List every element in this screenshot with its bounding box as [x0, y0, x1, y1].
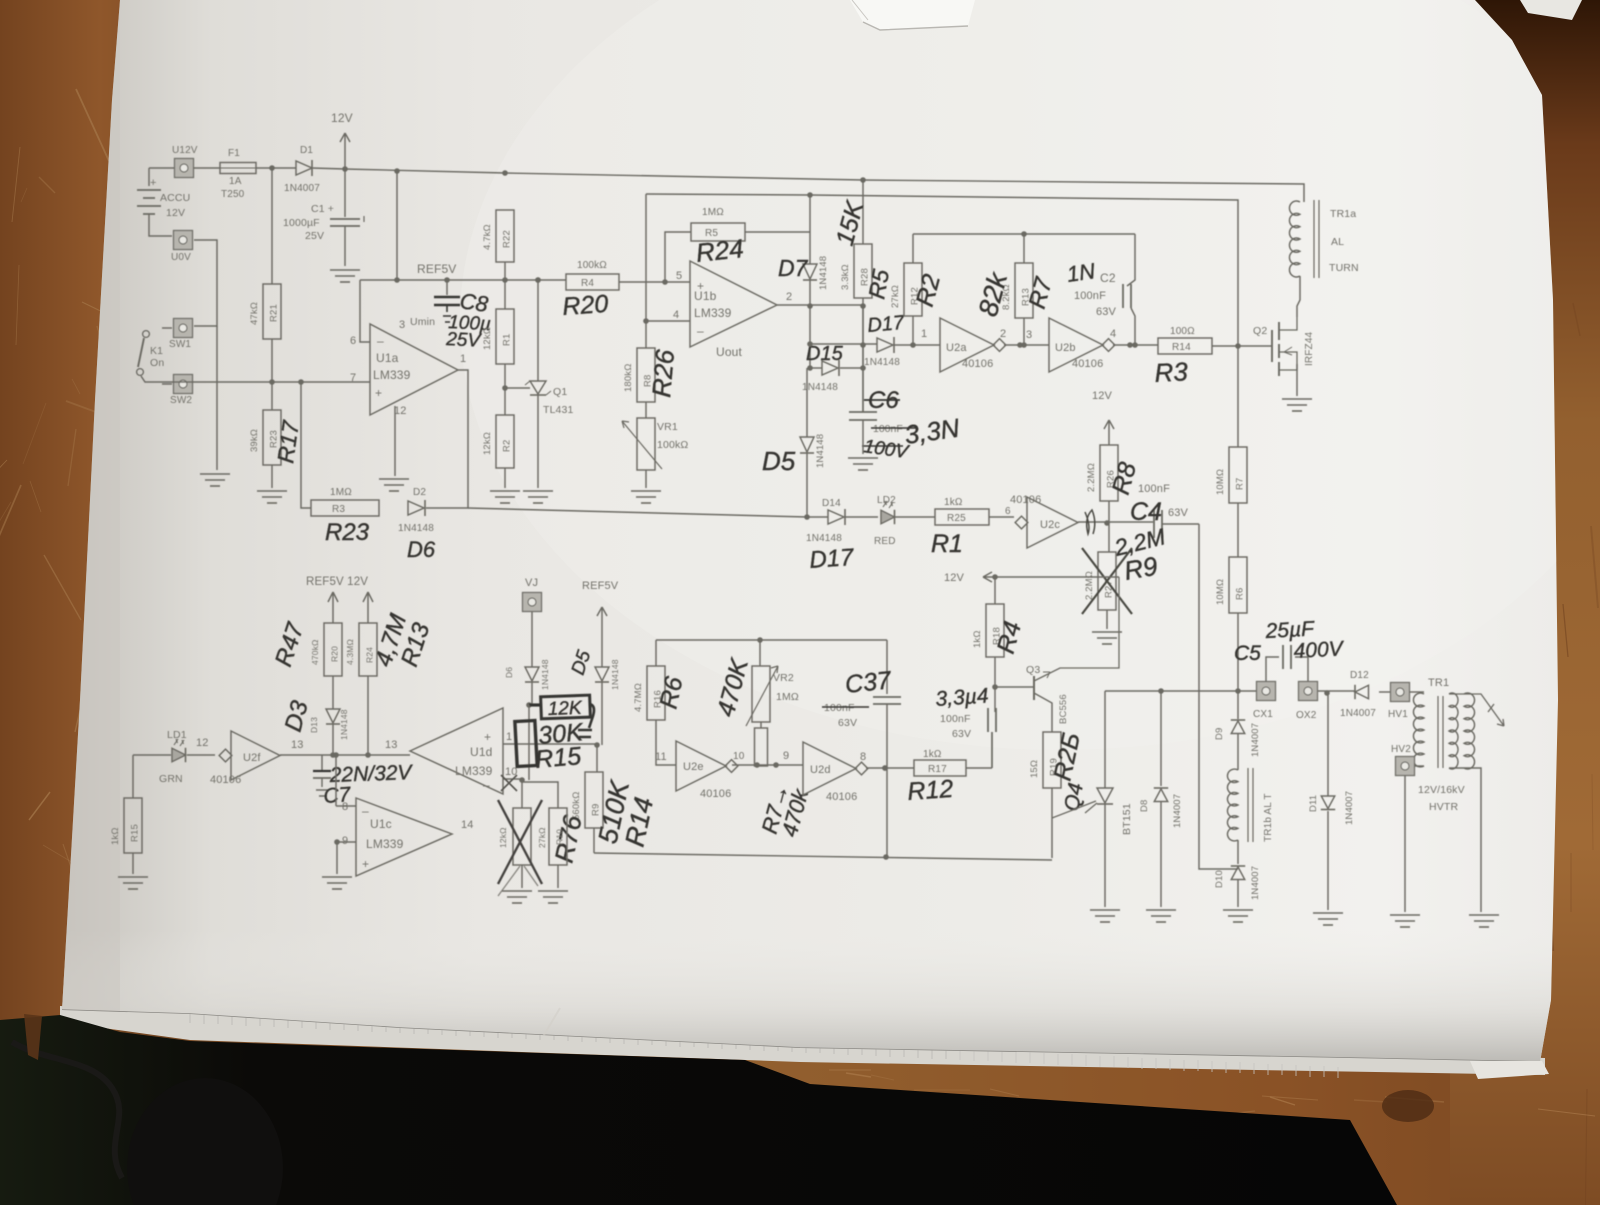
svg-text:R3: R3	[332, 504, 345, 515]
svg-text:C4: C4	[1130, 498, 1162, 526]
svg-text:27kΩ: 27kΩ	[537, 827, 547, 848]
svg-text:D17: D17	[867, 312, 906, 337]
svg-text:1A: 1A	[229, 176, 242, 187]
svg-text:R6: R6	[1235, 588, 1246, 600]
svg-text:1N4007: 1N4007	[1344, 791, 1355, 825]
svg-text:TL431: TL431	[543, 404, 574, 416]
svg-text:9: 9	[342, 835, 348, 847]
svg-text:REF5V: REF5V	[417, 262, 456, 276]
svg-text:REF5V: REF5V	[582, 580, 619, 592]
svg-text:8: 8	[860, 751, 866, 763]
svg-text:7: 7	[350, 372, 356, 384]
svg-text:R21: R21	[269, 304, 280, 322]
svg-text:U1d: U1d	[470, 745, 492, 759]
svg-text:12kΩ: 12kΩ	[498, 827, 508, 848]
svg-text:–: –	[483, 778, 490, 792]
svg-text:2.2MΩ: 2.2MΩ	[1084, 571, 1095, 600]
svg-text:HV2: HV2	[1391, 744, 1411, 755]
svg-text:4: 4	[1110, 328, 1116, 340]
svg-text:R14: R14	[1172, 342, 1191, 353]
svg-text:2.2MΩ: 2.2MΩ	[1086, 463, 1097, 492]
svg-text:LD2: LD2	[877, 495, 896, 506]
svg-text:D13: D13	[309, 717, 319, 733]
svg-text:4.7kΩ: 4.7kΩ	[482, 224, 493, 250]
svg-text:100nF: 100nF	[1074, 290, 1106, 302]
svg-text:R23: R23	[325, 519, 370, 546]
svg-text:12: 12	[196, 737, 209, 749]
svg-text:40106: 40106	[700, 788, 731, 800]
svg-text:R25: R25	[947, 513, 966, 524]
svg-text:SW1: SW1	[169, 339, 191, 350]
svg-text:12V: 12V	[166, 207, 185, 219]
svg-text:470kΩ: 470kΩ	[310, 639, 320, 665]
svg-text:R15: R15	[130, 824, 141, 842]
svg-text:1N4148: 1N4148	[610, 659, 620, 690]
svg-text:1N4007: 1N4007	[1340, 708, 1376, 719]
svg-text:U0V: U0V	[171, 252, 191, 263]
svg-text:R3: R3	[1154, 356, 1189, 388]
svg-text:10MΩ: 10MΩ	[1215, 469, 1226, 495]
svg-text:Uout: Uout	[716, 345, 742, 359]
svg-text:LM339: LM339	[455, 764, 493, 778]
svg-text:D8: D8	[1139, 800, 1150, 812]
svg-text:100nF: 100nF	[873, 423, 903, 435]
svg-text:LD1: LD1	[167, 729, 187, 741]
svg-text:HV1: HV1	[1388, 709, 1408, 720]
svg-text:100Ω: 100Ω	[1170, 326, 1195, 337]
svg-text:U1b: U1b	[694, 289, 717, 303]
svg-text:Q3: Q3	[1026, 664, 1040, 676]
svg-text:12V: 12V	[331, 111, 353, 125]
svg-text:10: 10	[733, 751, 745, 762]
svg-text:40106: 40106	[1072, 358, 1103, 370]
svg-text:2: 2	[1000, 328, 1006, 340]
svg-text:47kΩ: 47kΩ	[249, 302, 260, 325]
svg-text:13: 13	[385, 739, 398, 751]
svg-text:180kΩ: 180kΩ	[623, 364, 634, 392]
svg-text:D6: D6	[407, 537, 436, 562]
svg-text:63V: 63V	[1168, 507, 1189, 519]
svg-text:–: –	[362, 804, 369, 818]
svg-text:D9: D9	[1214, 728, 1225, 740]
svg-text:U2a: U2a	[946, 342, 967, 354]
svg-text:+: +	[375, 386, 382, 400]
svg-text:CX1: CX1	[1253, 709, 1273, 720]
svg-text:40106: 40106	[826, 791, 857, 803]
svg-text:+: +	[362, 857, 369, 871]
svg-text:GRN: GRN	[159, 773, 183, 785]
svg-text:–: –	[697, 324, 704, 338]
svg-text:3.3kΩ: 3.3kΩ	[840, 264, 851, 290]
svg-text:Q1: Q1	[553, 386, 567, 398]
svg-text:12K: 12K	[547, 698, 583, 720]
svg-text:BT151: BT151	[1121, 803, 1133, 835]
svg-text:VR2: VR2	[773, 672, 794, 684]
svg-text:40106: 40106	[962, 358, 993, 370]
svg-text:1N4007: 1N4007	[1250, 866, 1261, 900]
svg-text:R10: R10	[555, 829, 565, 845]
svg-text:12: 12	[394, 405, 407, 417]
svg-text:2: 2	[786, 291, 792, 303]
svg-text:LM339: LM339	[373, 368, 411, 382]
svg-text:15Ω: 15Ω	[1029, 760, 1040, 778]
svg-text:100nF: 100nF	[824, 702, 855, 714]
svg-text:R26: R26	[646, 348, 680, 399]
svg-text:R24: R24	[694, 233, 745, 268]
svg-text:1N4007: 1N4007	[1250, 723, 1261, 757]
svg-text:10MΩ: 10MΩ	[1215, 579, 1226, 605]
svg-text:+: +	[150, 177, 157, 189]
svg-text:U2e: U2e	[683, 761, 704, 773]
svg-text:3: 3	[1026, 329, 1032, 341]
svg-text:T250: T250	[221, 189, 245, 200]
svg-text:RED: RED	[874, 536, 896, 547]
svg-text:1N4148: 1N4148	[806, 533, 842, 544]
svg-text:C2: C2	[1100, 271, 1116, 285]
svg-text:HVTR: HVTR	[1429, 801, 1458, 813]
svg-text:1N4148: 1N4148	[339, 709, 349, 740]
svg-text:R15: R15	[534, 742, 582, 774]
svg-text:63V: 63V	[838, 717, 857, 729]
svg-text:C5: C5	[1234, 642, 1261, 665]
svg-text:12V/16kV: 12V/16kV	[1418, 784, 1465, 796]
svg-text:R12: R12	[906, 775, 954, 806]
svg-text:BC556: BC556	[1058, 694, 1069, 724]
svg-text:D6: D6	[504, 667, 514, 678]
svg-text:1N4148: 1N4148	[818, 256, 829, 290]
svg-text:ACCU: ACCU	[160, 192, 190, 204]
svg-text:TR1a: TR1a	[1330, 208, 1356, 220]
svg-text:–: –	[377, 334, 384, 348]
svg-text:TR1: TR1	[1428, 677, 1449, 689]
svg-text:25V: 25V	[445, 329, 483, 352]
svg-text:R7: R7	[1235, 478, 1246, 490]
svg-text:1N: 1N	[1065, 258, 1096, 287]
svg-text:VJ: VJ	[525, 577, 538, 589]
svg-text:R1: R1	[502, 334, 513, 346]
svg-text:1MΩ: 1MΩ	[776, 691, 799, 703]
svg-text:1kΩ: 1kΩ	[923, 749, 942, 760]
svg-text:D7: D7	[778, 255, 809, 281]
svg-text:100kΩ: 100kΩ	[577, 260, 607, 271]
svg-text:On: On	[150, 357, 164, 369]
svg-text:D14: D14	[822, 498, 841, 509]
svg-text:11: 11	[655, 751, 667, 763]
svg-text:TR1b AL T: TR1b AL T	[1263, 793, 1274, 842]
svg-text:1: 1	[460, 353, 466, 365]
svg-text:D1: D1	[300, 145, 313, 156]
svg-text:12kΩ: 12kΩ	[482, 327, 493, 350]
svg-text:OX2: OX2	[1296, 710, 1317, 721]
svg-text:U1c: U1c	[370, 817, 392, 831]
svg-text:R4: R4	[581, 278, 594, 289]
svg-text:3: 3	[399, 319, 405, 331]
svg-text:R2: R2	[502, 440, 513, 452]
svg-text:U2d: U2d	[810, 764, 831, 776]
svg-text:1N4148: 1N4148	[815, 434, 826, 468]
svg-text:1N4007: 1N4007	[1172, 794, 1183, 828]
svg-text:39kΩ: 39kΩ	[249, 429, 260, 452]
svg-text:D15: D15	[806, 343, 844, 365]
svg-text:D10: D10	[1214, 870, 1225, 888]
svg-text:3,3µ4: 3,3µ4	[935, 684, 989, 711]
svg-text:D5: D5	[762, 446, 796, 476]
svg-text:100nF: 100nF	[940, 713, 971, 725]
svg-text:12V: 12V	[1092, 390, 1113, 402]
svg-text:6: 6	[1005, 506, 1011, 517]
svg-text:R20: R20	[330, 646, 340, 662]
svg-text:R22: R22	[502, 230, 513, 248]
svg-text:4: 4	[673, 309, 679, 321]
svg-text:VR1: VR1	[657, 421, 678, 433]
svg-text:400V: 400V	[1293, 637, 1345, 663]
svg-text:+: +	[484, 730, 491, 744]
svg-text:1MΩ: 1MΩ	[702, 207, 724, 218]
svg-text:1N4148: 1N4148	[398, 523, 434, 534]
svg-text:D12: D12	[1350, 670, 1369, 681]
svg-text:U2c: U2c	[1040, 519, 1060, 531]
svg-text:K1: K1	[150, 345, 163, 357]
svg-text:D11: D11	[1308, 795, 1319, 812]
svg-text:D17: D17	[809, 544, 856, 574]
svg-text:14: 14	[461, 819, 474, 831]
svg-text:R17: R17	[928, 764, 947, 775]
svg-text:U2f: U2f	[243, 752, 261, 764]
svg-text:F1: F1	[228, 148, 240, 159]
svg-text:LM339: LM339	[366, 837, 404, 851]
svg-text:1N4148: 1N4148	[540, 659, 550, 690]
svg-text:Q2: Q2	[1253, 325, 1267, 337]
svg-text:Q4: Q4	[1060, 781, 1088, 813]
svg-text:12kΩ: 12kΩ	[482, 432, 493, 455]
svg-text:63V: 63V	[1096, 306, 1117, 318]
svg-text:13: 13	[291, 739, 304, 751]
svg-text:25V: 25V	[305, 230, 324, 242]
svg-text:63V: 63V	[952, 728, 971, 740]
svg-text:AL: AL	[1331, 236, 1344, 248]
svg-text:12V: 12V	[944, 572, 965, 584]
svg-text:1kΩ: 1kΩ	[944, 497, 963, 508]
svg-text:TURN: TURN	[1329, 262, 1359, 274]
svg-text:1MΩ: 1MΩ	[330, 487, 352, 498]
svg-text:1N4007: 1N4007	[284, 183, 320, 194]
svg-text:1N4148: 1N4148	[864, 357, 900, 368]
svg-text:1: 1	[921, 328, 927, 340]
svg-text:6: 6	[350, 335, 356, 347]
svg-text:1kΩ: 1kΩ	[972, 630, 983, 648]
svg-text:40106: 40106	[1010, 494, 1041, 506]
svg-text:100kΩ: 100kΩ	[657, 439, 688, 451]
svg-text:U1a: U1a	[376, 351, 399, 365]
svg-text:4.7MΩ: 4.7MΩ	[633, 683, 644, 712]
svg-text:1000µF: 1000µF	[283, 217, 320, 229]
svg-text:8: 8	[342, 801, 348, 813]
svg-text:C37: C37	[844, 666, 894, 699]
svg-text:1kΩ: 1kΩ	[110, 827, 121, 845]
svg-text:4.3MΩ: 4.3MΩ	[345, 639, 355, 665]
svg-text:R1: R1	[931, 530, 963, 558]
svg-text:Umin: Umin	[410, 316, 435, 328]
svg-text:40106: 40106	[210, 774, 241, 786]
svg-text:R20: R20	[561, 290, 609, 321]
svg-text:REF5V 12V: REF5V 12V	[306, 576, 368, 588]
svg-text:R9: R9	[1122, 551, 1160, 586]
svg-text:LM339: LM339	[694, 306, 732, 320]
svg-text:SW2: SW2	[170, 395, 192, 406]
svg-text:D2: D2	[413, 487, 426, 498]
svg-text:100nF: 100nF	[1138, 483, 1170, 495]
svg-text:27kΩ: 27kΩ	[890, 285, 901, 308]
svg-text:5: 5	[676, 270, 682, 282]
svg-text:U12V: U12V	[172, 145, 198, 156]
svg-text:IRFZ44: IRFZ44	[1304, 331, 1315, 366]
svg-text:1: 1	[506, 731, 512, 743]
svg-text:U2b: U2b	[1055, 342, 1076, 354]
svg-text:9: 9	[783, 750, 789, 762]
svg-text:C1 +: C1 +	[311, 203, 334, 215]
